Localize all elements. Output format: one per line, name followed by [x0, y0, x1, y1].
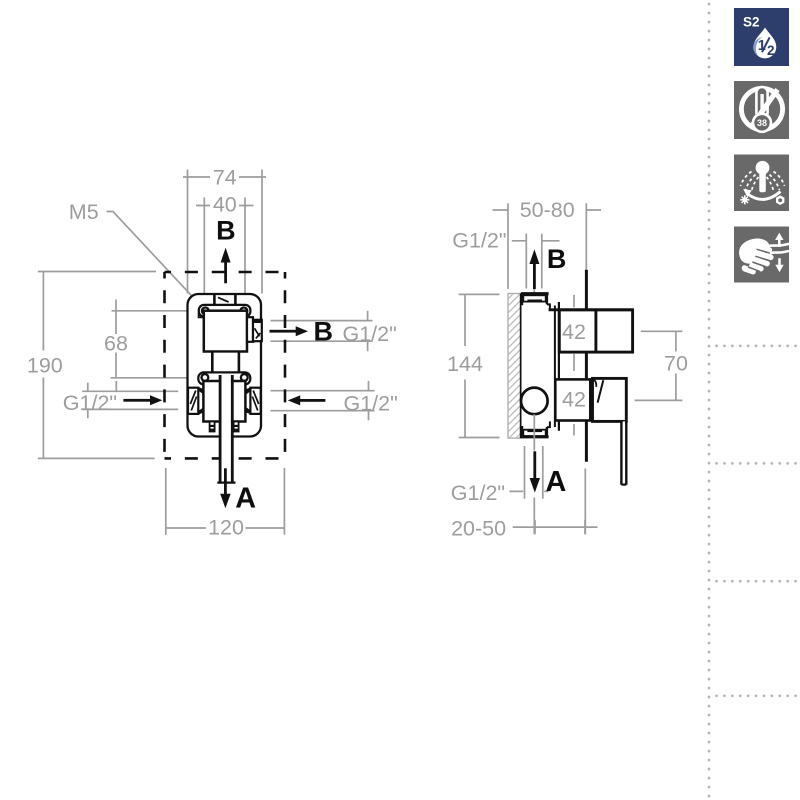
- dim 68 lines: [111, 300, 188, 392]
- flange screw right: [240, 308, 247, 315]
- svg-text:M5: M5: [69, 200, 99, 224]
- arrow A down front: [220, 468, 230, 508]
- icon no-thermostat 38: [734, 81, 789, 139]
- svg-text:74: 74: [213, 165, 237, 189]
- svg-text:A: A: [546, 466, 567, 498]
- side body plate: [522, 295, 556, 437]
- arrow A down side: [530, 451, 540, 492]
- svg-text:144: 144: [447, 352, 483, 376]
- arrow B right front: [270, 326, 309, 336]
- svg-text:40: 40: [213, 193, 237, 217]
- top outlet port fitting: [253, 320, 262, 341]
- dim 190 lines: [38, 272, 156, 459]
- right foot stub: [234, 422, 239, 432]
- square knob side: [559, 310, 632, 352]
- lower valve cartridge: [203, 381, 245, 422]
- dim 74 lines: [183, 170, 266, 294]
- left step detail: [199, 313, 204, 318]
- arrow B up side: [529, 249, 539, 289]
- svg-text:2: 2: [767, 43, 775, 58]
- svg-text:B: B: [547, 244, 567, 274]
- svg-text:G1/2": G1/2": [451, 481, 505, 505]
- svg-text:S2: S2: [743, 15, 760, 30]
- svg-text:50-80: 50-80: [520, 198, 575, 222]
- icon S2 half-inch: [734, 8, 789, 66]
- svg-text:G1/2": G1/2": [343, 322, 397, 346]
- top outlet port inner: [247, 317, 253, 342]
- arrow left inlet front: [123, 395, 162, 405]
- lower flange screw right: [241, 374, 248, 381]
- outlet pipe A down: [222, 374, 231, 482]
- svg-text:G1/2": G1/2": [63, 391, 117, 415]
- flange screw M5 left: [202, 308, 209, 315]
- svg-text:68: 68: [104, 332, 128, 356]
- right top outlet port extent lines G1/2: [271, 311, 373, 351]
- left inlet port extent lines G1/2: [82, 383, 178, 419]
- side inlet circle: [521, 388, 548, 415]
- lever arm: [623, 421, 625, 484]
- lower valve body side: [555, 379, 590, 420]
- centre axis through bottom fitting: [533, 414, 535, 450]
- icon temperature swing: [734, 155, 789, 212]
- dim 50-80 lines: [493, 203, 602, 289]
- arrow B up front: [221, 248, 231, 284]
- svg-text:120: 120: [208, 516, 244, 540]
- side plate front face lines: [554, 306, 556, 428]
- side top G1/2 dim lines: [512, 234, 560, 289]
- svg-text:38: 38: [757, 118, 767, 128]
- dim 144 lines: [459, 294, 500, 437]
- mixer body plate front view: [188, 294, 262, 437]
- top valve flange: [199, 305, 251, 317]
- lower flange screw left: [202, 374, 209, 381]
- clamp wedges: [199, 387, 204, 394]
- dim 42 tick lines: [573, 295, 575, 436]
- side bottom fitting: [521, 421, 550, 436]
- icon flow control hand: [734, 227, 789, 283]
- top connector stub: [214, 295, 235, 305]
- left foot stub: [210, 422, 215, 432]
- svg-text:B: B: [216, 216, 236, 246]
- svg-text:A: A: [235, 483, 256, 515]
- wall section hatch block: [500, 276, 524, 468]
- dim 120 lines: [166, 468, 285, 535]
- M5 leader line: [107, 212, 204, 309]
- svg-text:70: 70: [664, 352, 688, 376]
- svg-text:G1/2": G1/2": [452, 229, 506, 253]
- svg-text:42: 42: [562, 320, 586, 344]
- dotted separator vertical: [708, 4, 711, 798]
- lower valve flange: [198, 372, 250, 384]
- connecting pipe between valves: [214, 353, 238, 375]
- right inlet port: [250, 388, 260, 414]
- svg-text:B: B: [314, 317, 334, 347]
- svg-text:42: 42: [562, 388, 586, 412]
- right bottom inlet port extent lines G1/2: [271, 381, 375, 420]
- svg-text:190: 190: [27, 354, 63, 378]
- left inlet port: [188, 388, 198, 414]
- svg-text:20-50: 20-50: [451, 516, 506, 540]
- top valve cartridge: [204, 311, 247, 352]
- dim 70 lines: [635, 331, 683, 400]
- lever handle side: [593, 378, 627, 421]
- arrow right inlet front: [288, 395, 326, 405]
- side bottom G1/2 dim lines: [510, 446, 549, 499]
- side top fitting: [521, 294, 550, 310]
- dim 20-50 lines: [513, 520, 598, 534]
- side centre axis line: [533, 286, 535, 534]
- dotted separator horizontals: [717, 346, 800, 696]
- wall face extension line below: [584, 469, 586, 535]
- dashed recess box: [165, 272, 286, 458]
- dim 40 lines: [196, 198, 254, 305]
- svg-text:G1/2": G1/2": [344, 392, 398, 416]
- finished wall surface line: [585, 270, 588, 462]
